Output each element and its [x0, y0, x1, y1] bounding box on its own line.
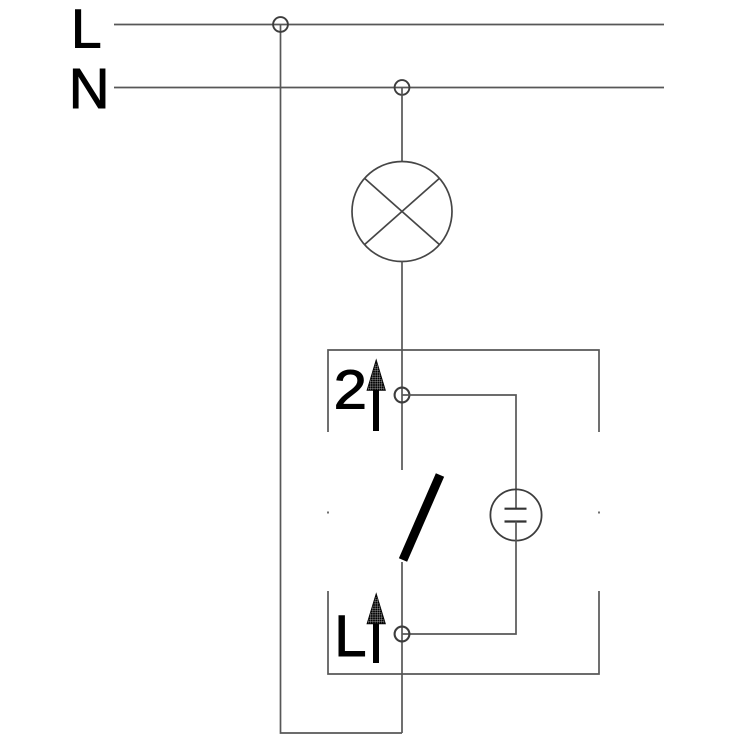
wire: left vertical drop from L tap and bottom return — [281, 25, 403, 734]
node: tap on L bus — [273, 17, 288, 32]
wire: indicator down and back to terminal L — [402, 522, 516, 635]
svg-text:N: N — [69, 57, 110, 120]
wire: terminal 2 to indicator branch — [402, 395, 516, 508]
lamp E1 (circle with X) — [352, 162, 452, 262]
svg-text:L: L — [334, 604, 366, 669]
svg-text:L: L — [71, 0, 102, 59]
terminal node L — [395, 627, 410, 642]
svg-text:2: 2 — [334, 360, 367, 421]
terminal node 2 — [395, 388, 410, 403]
wire: lamp down into switch box — [401, 262, 403, 471]
switch blade — [403, 475, 440, 560]
wire: N bus line — [114, 87, 664, 89]
wire: N tap down to lamp — [401, 88, 403, 162]
arrow at terminal 2 — [367, 360, 385, 431]
arrow at terminal L — [367, 594, 385, 663]
wire: blade bottom through terminal L and out of box — [401, 562, 403, 733]
glow lamp (indicator) — [490, 489, 541, 540]
node: tap on N bus — [395, 80, 410, 95]
switch enclosure box (broken outline) — [328, 350, 599, 674]
wire: L bus line — [114, 24, 664, 26]
glow lamp plates — [505, 508, 527, 510]
